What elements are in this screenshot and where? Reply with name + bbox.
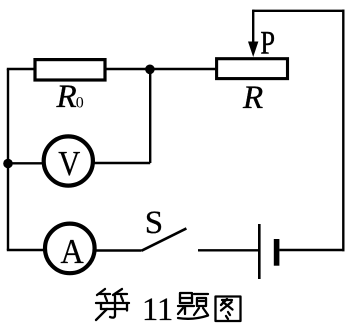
svg-text:S: S	[145, 205, 163, 241]
svg-text:0: 0	[76, 95, 84, 112]
caption: hand-drawn CJK 第11题图	[96, 289, 241, 321]
wire bottom-left horizontal to ammeter	[7, 249, 46, 251]
node junction dot top	[145, 65, 155, 75]
wire battery to right rail	[279, 249, 344, 251]
wire top horizontal	[253, 10, 344, 12]
svg-text:A: A	[61, 233, 85, 272]
svg-text:V: V	[58, 145, 80, 183]
voltmeter V circle	[44, 136, 93, 185]
wire slider arm vertical	[252, 10, 254, 44]
wire voltmeter left to left rail	[8, 162, 44, 164]
svg-text:11: 11	[142, 292, 173, 327]
wire right vertical rail	[342, 10, 344, 252]
wire switch to battery	[198, 249, 258, 251]
node junction dot left	[3, 159, 13, 169]
caption char 题	[178, 293, 208, 319]
svg-text:R: R	[56, 79, 77, 115]
slider arrowhead P	[248, 42, 258, 58]
wire R0 to rheostat	[105, 68, 216, 70]
wire horizontal to voltmeter right	[93, 162, 150, 164]
wire ammeter to switch	[94, 249, 142, 251]
caption char 图	[216, 297, 241, 322]
wire vertical from junction down	[149, 69, 151, 163]
battery short plate	[274, 239, 280, 266]
resistor R0	[35, 60, 105, 80]
wire top-left horizontal to R0	[7, 68, 36, 70]
rheostat R	[217, 59, 288, 79]
wire left vertical	[7, 69, 9, 250]
battery long plate	[258, 224, 261, 279]
caption char 第	[96, 289, 129, 320]
switch S blade	[142, 228, 187, 250]
svg-text:R: R	[242, 80, 263, 116]
svg-text:P: P	[260, 25, 275, 61]
ammeter A circle	[45, 224, 95, 274]
